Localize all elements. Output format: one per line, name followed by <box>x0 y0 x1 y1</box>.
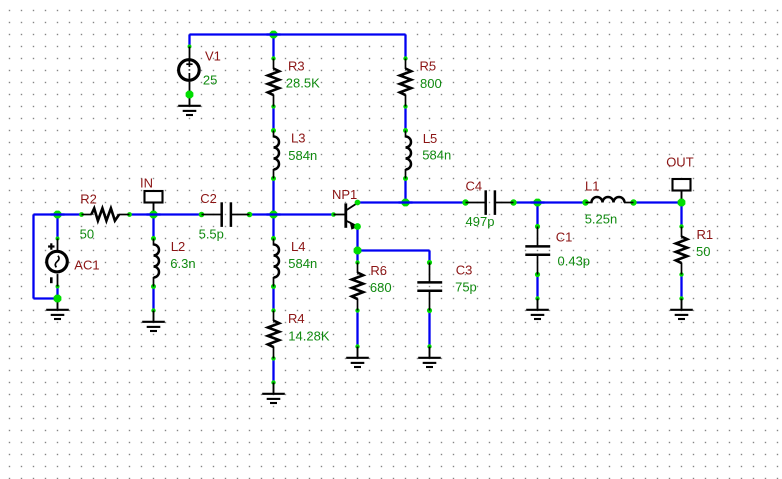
svg-text:25: 25 <box>203 72 217 87</box>
svg-text:L4: L4 <box>291 239 305 254</box>
label R5 <box>420 59 437 74</box>
wire V1 top stem <box>188 35 190 47</box>
junction nodes (green) <box>54 31 686 303</box>
voltage source V1 <box>179 47 200 95</box>
transistor NP1 <box>334 203 358 229</box>
wire R1 to ground <box>680 275 682 299</box>
node collector of NP1 <box>355 200 361 206</box>
ground of C1 <box>526 299 549 320</box>
wire C1 top stem <box>536 203 538 227</box>
svg-text:C4: C4 <box>466 179 483 194</box>
ground of V1 <box>178 95 201 116</box>
resistor R3 <box>268 59 279 107</box>
label IN <box>140 176 153 191</box>
wire main mid <box>130 213 202 215</box>
svg-text:IN: IN <box>140 176 153 191</box>
wire R6 top stem <box>356 251 358 263</box>
inductor L1 <box>586 197 634 203</box>
port IN <box>145 191 163 215</box>
inductor L2 <box>154 239 160 287</box>
value 25 of V1 <box>203 72 217 87</box>
svg-text:R2: R2 <box>80 192 97 207</box>
ground of L2 <box>142 311 165 332</box>
restroke C1 junction <box>531 201 545 203</box>
value 14.28K of R4 <box>288 329 330 344</box>
capacitor C4 <box>466 190 514 215</box>
wire R4 to ground <box>272 359 274 383</box>
node emitter of NP1 <box>354 223 361 230</box>
label OUT <box>666 154 694 169</box>
wire R6 to ground <box>356 311 358 347</box>
inductor L4 <box>274 239 280 287</box>
svg-text:28.5K: 28.5K <box>286 76 320 91</box>
value 5.5p of C2 <box>199 227 224 242</box>
svg-text:497p: 497p <box>466 214 495 229</box>
value 800 of R5 <box>420 76 442 91</box>
wire C3 to ground <box>428 311 430 347</box>
resistor R2 <box>82 208 130 220</box>
svg-text:R3: R3 <box>288 59 305 74</box>
svg-text:R6: R6 <box>370 263 387 278</box>
restroke L4 junction <box>267 213 281 215</box>
value 584n of L3 <box>288 148 317 163</box>
svg-text:R1: R1 <box>697 227 714 242</box>
wire AC1 bottom stem <box>56 287 58 299</box>
wire collector rail mid <box>514 201 586 203</box>
restroke IN junction <box>147 213 161 215</box>
resistor R5 <box>400 59 411 107</box>
label R2 <box>80 192 97 207</box>
restroke AC1 main junction <box>51 213 65 215</box>
svg-text:50: 50 <box>696 244 710 259</box>
resistor R4 <box>268 311 279 359</box>
resistor R6 <box>352 263 363 311</box>
ground of C3 <box>418 347 441 368</box>
svg-text:L1: L1 <box>585 179 599 194</box>
wire R3 top <box>272 35 274 59</box>
label V1 <box>205 49 221 64</box>
wire L5 to collector rail <box>404 179 406 203</box>
wire main left <box>34 213 82 215</box>
wire R3 to L3 <box>272 107 274 131</box>
svg-text:OUT: OUT <box>666 154 694 169</box>
value 0.43p of C1 <box>558 253 591 268</box>
svg-text:C3: C3 <box>456 263 473 278</box>
svg-text:5.5p: 5.5p <box>199 227 224 242</box>
svg-text:6.3n: 6.3n <box>170 256 195 271</box>
label C3 <box>456 263 473 278</box>
label NP1 <box>332 187 357 202</box>
value 50 of R1 <box>696 244 710 259</box>
resistor R1 <box>676 227 687 275</box>
label R4 <box>288 311 305 326</box>
label C2 <box>200 191 217 206</box>
ground of R1 <box>670 299 693 320</box>
value 680 of R6 <box>370 280 392 295</box>
value 5.25n of L1 <box>585 211 618 226</box>
svg-text:14.28K: 14.28K <box>288 329 330 344</box>
value 75p of C3 <box>455 280 477 295</box>
value 6.3n of L2 <box>170 256 195 271</box>
ground of R6 <box>346 347 369 368</box>
wire L2 to ground <box>152 287 154 311</box>
svg-text:V1: V1 <box>205 49 221 64</box>
svg-text:L5: L5 <box>423 131 437 146</box>
wire collector rail right <box>634 201 682 203</box>
wire L2 top stem <box>152 215 154 239</box>
svg-text:L3: L3 <box>291 130 305 145</box>
capacitor C2 <box>202 202 250 227</box>
capacitor C1 <box>525 227 550 275</box>
wire L4 top stem <box>272 215 274 239</box>
wire C3 top stem <box>428 251 430 263</box>
label L1 <box>585 179 599 194</box>
wire top rail <box>190 33 406 35</box>
svg-text:0.43p: 0.43p <box>558 253 591 268</box>
value 50 of R2 <box>80 226 94 241</box>
port OUT <box>673 179 691 203</box>
value 584n of L4 <box>288 256 317 271</box>
svg-text:680: 680 <box>370 280 392 295</box>
wire AC1 top stem <box>56 215 58 239</box>
node pin dots (green) <box>56 45 684 385</box>
svg-text:AC1: AC1 <box>74 258 99 273</box>
svg-text:R4: R4 <box>288 311 305 326</box>
svg-text:R5: R5 <box>420 59 437 74</box>
svg-text:NP1: NP1 <box>332 187 357 202</box>
ground of R4 <box>262 383 285 404</box>
wire collector rail left <box>358 201 466 203</box>
wire L4 to R4 <box>272 287 274 311</box>
wire R5 to L5 <box>404 107 406 131</box>
capacitor C3 <box>417 263 442 311</box>
value 28.5K of R3 <box>286 76 320 91</box>
label R3 <box>288 59 305 74</box>
wire L3 to main <box>272 179 274 215</box>
value 497p of C4 <box>466 214 495 229</box>
svg-text:584n: 584n <box>422 148 451 163</box>
svg-text:584n: 584n <box>288 148 317 163</box>
label C1 <box>556 230 573 245</box>
label R1 <box>697 227 714 242</box>
label AC1 <box>74 258 99 273</box>
wire emitter stem <box>356 227 358 251</box>
svg-text:584n: 584n <box>288 256 317 271</box>
inductor L3 <box>274 131 280 179</box>
wire emitter node horizontal <box>358 249 430 251</box>
wire main right <box>250 213 334 215</box>
ac source AC1 <box>47 239 68 287</box>
label L3 <box>291 130 305 145</box>
label L5 <box>423 131 437 146</box>
svg-text:L2: L2 <box>171 239 185 254</box>
wire R1 top stem <box>680 203 682 227</box>
svg-text:800: 800 <box>420 76 442 91</box>
svg-text:C1: C1 <box>556 230 573 245</box>
label C4 <box>466 179 483 194</box>
label R6 <box>370 263 387 278</box>
svg-text:50: 50 <box>80 226 94 241</box>
label L2 <box>171 239 185 254</box>
wire source loop bottom <box>34 297 58 299</box>
svg-text:75p: 75p <box>455 280 477 295</box>
inductor L5 <box>406 131 412 179</box>
svg-text:C2: C2 <box>200 191 217 206</box>
label L4 <box>291 239 305 254</box>
wire R5 top <box>404 35 406 59</box>
value 584n of L5 <box>422 148 451 163</box>
svg-text:5.25n: 5.25n <box>585 211 618 226</box>
wire source loop vertical <box>32 215 34 299</box>
wire C1 to ground <box>536 275 538 299</box>
restroke L5 junction <box>399 201 413 203</box>
ground of AC1 <box>46 299 69 320</box>
restroke top rail junction <box>267 33 281 35</box>
